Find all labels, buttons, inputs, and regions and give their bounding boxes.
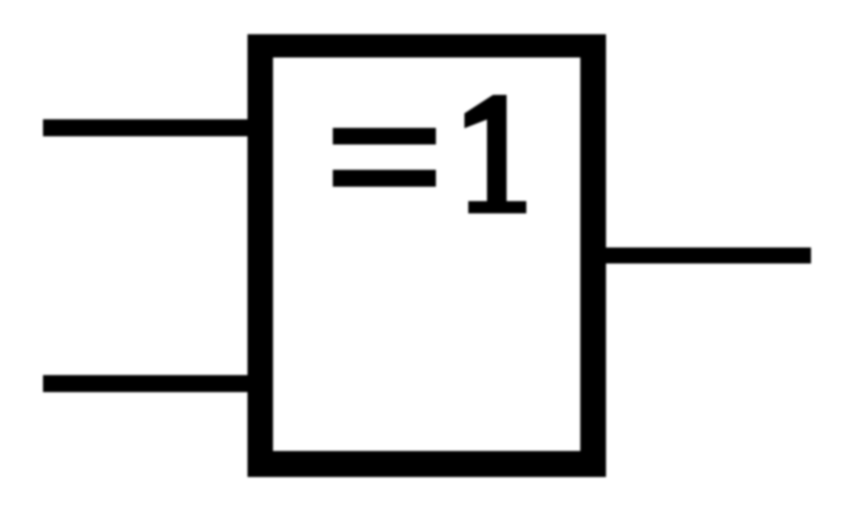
xor gate U1 body (IEC rectangular outline)	[248, 34, 607, 477]
value label "=1" (XOR function qualifier)	[333, 95, 527, 213]
wire input B (bottom left pin)	[43, 375, 249, 392]
wire input A (top left pin)	[43, 119, 249, 136]
wire output Y (right pin)	[593, 248, 811, 264]
